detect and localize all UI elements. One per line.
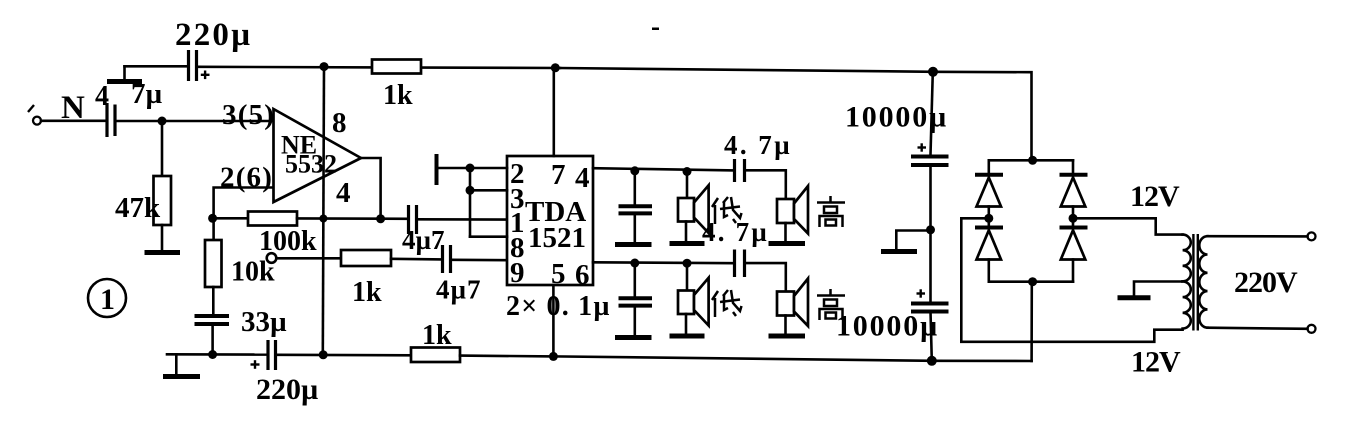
svg-text:7µ: 7µ	[131, 78, 163, 110]
svg-text:3(5): 3(5)	[222, 99, 275, 131]
label tweeter GAO ch1	[817, 196, 845, 227]
ground mid	[896, 231, 930, 250]
svg-text:10000µ: 10000µ	[845, 101, 948, 134]
bridge bottom wire	[989, 280, 1073, 283]
wire ground to pin2	[437, 167, 508, 170]
terminal 10k wiper circle	[267, 253, 277, 263]
transformer secondary winding lower	[1183, 281, 1191, 328]
resistor 1k bottom	[411, 348, 460, 363]
node feedback junction	[208, 214, 217, 223]
terminal primary bottom	[1308, 325, 1316, 333]
wire to opamp pin3	[117, 120, 274, 123]
capacitor 4.7u ch1	[733, 159, 736, 182]
speaker tweeter ch2	[777, 292, 794, 316]
node ch1 b	[683, 167, 692, 176]
diode D1 top-left	[987, 160, 990, 175]
node crossing power line	[319, 215, 327, 223]
svg-text:4µ7: 4µ7	[436, 275, 482, 305]
wire opamp pin2	[214, 188, 273, 219]
wire bridge bottom to rail	[1030, 282, 1033, 361]
node dot top rail at TDA pin7	[551, 63, 560, 72]
capacitor 10000u bottom	[911, 302, 949, 306]
svg-text:8: 8	[332, 107, 347, 139]
wire cap to TDA pin1	[418, 218, 508, 221]
capacitor 220u bottom	[266, 340, 269, 370]
node ch1 a	[630, 166, 639, 175]
wire TDA pin4 output row	[593, 168, 734, 170]
svg-text:10000µ: 10000µ	[836, 310, 939, 343]
wire to pin8	[470, 235, 507, 238]
node ch2 b	[683, 259, 692, 268]
svg-text:100k: 100k	[259, 226, 317, 257]
input terminal N	[28, 105, 34, 112]
wire primary top	[1208, 235, 1308, 238]
diode D2 bottom-left	[987, 218, 990, 227]
wire to 220u cap	[125, 65, 188, 68]
wire bottom rail a	[167, 353, 267, 356]
noise speck	[652, 28, 659, 31]
transformer primary winding	[1199, 236, 1207, 328]
wire cap to TDA pin9	[452, 258, 508, 261]
resistor 100k feedback	[213, 217, 248, 220]
svg-text:9: 9	[510, 257, 525, 289]
label woofer DI ch2	[712, 290, 742, 317]
svg-text:4: 4	[95, 81, 109, 112]
node bridge right	[1069, 214, 1078, 223]
capacitor 33u	[195, 314, 230, 318]
wire opamp power vertical	[323, 67, 324, 355]
bridge top wire	[989, 159, 1073, 162]
wire opamp output	[361, 158, 381, 219]
node pin2	[466, 164, 475, 173]
svg-text:220µ: 220µ	[175, 17, 252, 53]
wire bottom rail d	[553, 356, 931, 360]
speaker woofer ch1	[686, 172, 689, 199]
IC U2 TDA1521	[507, 156, 593, 285]
node bridge left	[984, 214, 993, 223]
wire to tweeter ch2	[746, 263, 786, 290]
wire bottom rail e	[932, 359, 1032, 362]
node input junction	[158, 117, 167, 126]
wire feedback to cap	[297, 217, 408, 220]
node filter rail junction	[927, 356, 937, 366]
wire bridge right to transformer top	[1073, 218, 1183, 234]
label circled 1	[88, 279, 126, 317]
svg-text:7: 7	[551, 159, 566, 191]
resistor 10k	[212, 218, 215, 240]
capacitor C 220u top plate terminal bar	[107, 79, 142, 84]
transformer T1 secondary winding upper	[1183, 235, 1191, 282]
terminal primary top	[1308, 232, 1316, 240]
wire wiper to 1k	[277, 257, 342, 260]
svg-text:1: 1	[100, 283, 115, 316]
label tweeter GAO ch2	[817, 289, 845, 320]
capacitor 4.7u ch2	[733, 250, 736, 278]
wire TDA pin6 output row	[593, 261, 734, 265]
svg-text:47k: 47k	[115, 192, 161, 224]
node opamp V- junction	[319, 350, 328, 359]
svg-text:12V: 12V	[1131, 346, 1181, 379]
capacitor 4u7 lower	[441, 245, 444, 273]
node bridge bottom	[1028, 277, 1037, 286]
wire center tap	[1134, 282, 1181, 296]
wire top rail right	[560, 68, 933, 72]
capacitor 10000u top	[911, 155, 949, 159]
svg-text:1521: 1521	[528, 222, 586, 254]
speaker woofer ch2	[686, 263, 689, 290]
resistor 1k middle	[341, 250, 391, 266]
wire TDA pin7 to rail	[552, 68, 555, 156]
node output junction	[376, 214, 385, 223]
diode D3 top-right	[1072, 160, 1075, 175]
wire primary bottom	[1208, 328, 1308, 329]
wire pins 2-3-8 tie	[469, 168, 472, 237]
svg-text:1k: 1k	[422, 320, 452, 351]
op-amp U1 NE5532	[274, 109, 362, 202]
svg-text:5532: 5532	[285, 150, 337, 179]
svg-text:33µ: 33µ	[241, 306, 287, 338]
capacitor 220u top	[187, 50, 190, 81]
wire to tweeter ch1	[746, 170, 786, 198]
svg-text:2× 0. 1µ: 2× 0. 1µ	[506, 291, 611, 322]
node dot top rail at opamp power	[320, 62, 329, 71]
svg-text:4. 7µ: 4. 7µ	[724, 130, 792, 160]
wire top rail to bridge	[933, 72, 1032, 161]
ground bar left of TDA	[435, 154, 439, 185]
wire bridge left to transformer bottom	[961, 218, 1182, 341]
wire TDA pin5 to bottom rail	[552, 285, 555, 356]
transformer core	[1192, 234, 1194, 331]
resistor 47k	[161, 121, 164, 176]
resistor 1k top	[372, 60, 421, 74]
svg-text:4: 4	[575, 162, 590, 194]
node ch2 a	[630, 259, 639, 268]
capacitor 0.1u ch1	[633, 171, 636, 205]
node mid ground	[926, 225, 935, 234]
svg-text:6: 6	[575, 259, 590, 291]
svg-text:220µ: 220µ	[256, 373, 318, 406]
ground below 47k	[145, 250, 181, 255]
node pin3	[466, 186, 475, 195]
node bridge top	[1028, 156, 1037, 165]
wire to pin3	[470, 189, 507, 192]
ground center tap	[1118, 295, 1151, 300]
svg-text:1k: 1k	[383, 80, 413, 111]
speaker tweeter ch1	[777, 199, 794, 223]
node 33u junction	[208, 350, 217, 359]
svg-text:12V: 12V	[1130, 180, 1180, 213]
wire bottom rail c	[460, 354, 553, 357]
label woofer DI ch1	[712, 197, 742, 224]
diode D4 bottom-right	[1072, 218, 1075, 227]
ground bottom left	[163, 374, 200, 379]
svg-text:1k: 1k	[352, 277, 382, 308]
svg-text:4: 4	[336, 177, 351, 209]
node dot top rail at filter rail	[928, 67, 938, 77]
wire bottom rail b	[277, 353, 411, 356]
node TDA pin5 junction	[549, 352, 558, 361]
capacitor 0.1u ch2	[633, 263, 636, 297]
filter rail vertical	[931, 72, 933, 155]
svg-text:4µ7: 4µ7	[402, 225, 445, 255]
capacitor 4u7 upper	[407, 205, 410, 234]
wire input	[41, 120, 105, 123]
svg-text:220V: 220V	[1234, 266, 1298, 299]
wire top rail left	[197, 67, 560, 68]
capacitor 4.7u input	[105, 103, 108, 137]
